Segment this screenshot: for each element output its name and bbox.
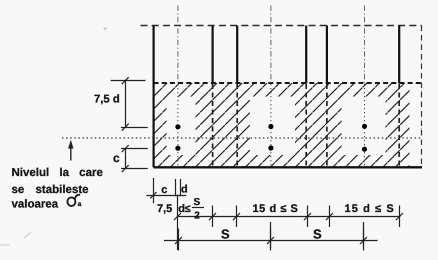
svg-text:15 d ≤ S: 15 d ≤ S <box>345 203 395 215</box>
svg-text:valoarea: valoarea <box>12 198 59 210</box>
svg-text:≤: ≤ <box>185 203 191 215</box>
svg-text:c: c <box>113 151 120 165</box>
svg-text:S: S <box>313 227 322 242</box>
svg-text:a: a <box>78 201 82 208</box>
svg-text:2: 2 <box>194 211 200 222</box>
svg-text:S: S <box>194 197 201 208</box>
svg-text:7,5 d: 7,5 d <box>94 94 120 106</box>
svg-text:7,5: 7,5 <box>157 203 172 215</box>
svg-text:Nivelul la care: Nivelul la care <box>12 167 103 179</box>
svg-text:se stabileste: se stabileste <box>12 184 89 196</box>
svg-text:d: d <box>181 184 188 196</box>
svg-text:S: S <box>221 227 230 242</box>
svg-text:15 d ≤ S: 15 d ≤ S <box>253 203 299 215</box>
svg-text:+: + <box>103 26 107 33</box>
svg-text:c: c <box>161 184 167 196</box>
